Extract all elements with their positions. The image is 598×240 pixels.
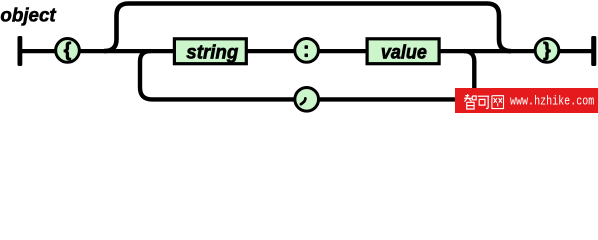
svg-text:string: string bbox=[186, 41, 238, 63]
watermark CJK glyph 网 bbox=[492, 96, 504, 109]
nonterminal string box bbox=[174, 39, 246, 64]
watermark CJK glyph 可 bbox=[478, 96, 489, 108]
svg-text:{: { bbox=[64, 40, 71, 61]
svg-text:value: value bbox=[381, 41, 427, 63]
terminal , circle on bottom loop bbox=[295, 87, 319, 111]
watermark red box bbox=[455, 88, 598, 113]
svg-text:}: } bbox=[543, 40, 551, 61]
svg-text:www.hzhike.com: www.hzhike.com bbox=[510, 95, 594, 109]
wire: top bypass rail bbox=[104, 4, 511, 52]
wire: main rail bbox=[20, 49, 594, 53]
watermark CJK glyph 智 bbox=[464, 94, 476, 109]
start terminal bar bbox=[18, 36, 23, 66]
svg-text:object: object bbox=[0, 5, 57, 27]
wire: bottom comma loop bbox=[140, 51, 474, 99]
terminal : circle bbox=[295, 39, 319, 63]
terminal } circle bbox=[535, 39, 559, 63]
terminal { circle bbox=[56, 39, 80, 63]
end terminal bar bbox=[591, 36, 596, 66]
nonterminal value box bbox=[367, 39, 439, 64]
